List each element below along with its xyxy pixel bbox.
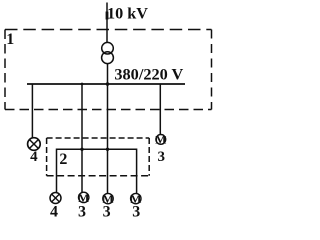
- junction bus/M1 drop: [81, 83, 84, 86]
- svg-text:380/220 V: 380/220 V: [114, 65, 183, 84]
- wire transformer secondary through bus to motor M2: [107, 64, 109, 193]
- junction box2 bus/M1: [80, 148, 83, 151]
- wire incoming 10kV feeder: [106, 3, 108, 43]
- lamp HL1: [28, 138, 41, 151]
- svg-text:3: 3: [78, 204, 86, 219]
- motor M3: [130, 192, 141, 206]
- dashed enclosure 2 (distribution box): [47, 138, 150, 176]
- junction bus/transformer: [106, 82, 110, 86]
- wire drop to lamp group 4 (left): [31, 84, 33, 138]
- motor M2: [102, 192, 113, 206]
- svg-text:4: 4: [30, 149, 38, 165]
- svg-text:3: 3: [103, 204, 111, 219]
- motor M4 (right): [155, 133, 166, 147]
- junction box2 bus/M2: [106, 148, 109, 151]
- lamp HL2: [50, 193, 61, 204]
- wire drop through box2 to motor M1: [81, 84, 83, 192]
- motor M1: [78, 191, 89, 205]
- busbar 380/220V: [27, 83, 185, 85]
- dashed enclosure 1 (substation): [5, 30, 212, 110]
- svg-text:M: M: [155, 133, 166, 147]
- svg-text:3: 3: [158, 149, 166, 165]
- distribution busbar in box 2: [57, 149, 137, 193]
- fuse mark on feeder: [106, 12, 109, 20]
- svg-text:3: 3: [132, 204, 140, 219]
- svg-text:1: 1: [6, 31, 14, 48]
- svg-text:2: 2: [59, 151, 67, 168]
- svg-text:4: 4: [50, 204, 58, 219]
- transformer T1: [102, 42, 114, 54]
- wire drop to motor M right: [159, 84, 161, 134]
- svg-text:10 kV: 10 kV: [107, 4, 148, 22]
